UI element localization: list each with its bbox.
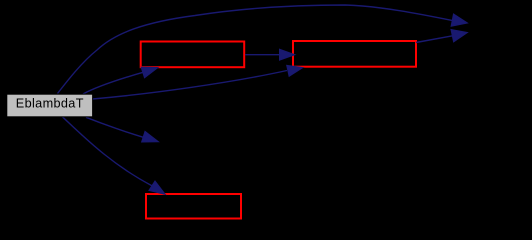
node box1 (red) [141, 42, 245, 68]
wire EblambdaT to box3 [62, 117, 151, 186]
node box2 (red) [293, 41, 416, 67]
node EblambdaT (grey) [7, 94, 93, 117]
arrowhead mid-air [142, 131, 159, 142]
wire EblambdaT to far-right node (top curve) [58, 5, 453, 94]
arrowhead top-right A1 [451, 14, 467, 26]
node box3 (red) [146, 194, 241, 219]
svg-text:EblambdaT: EblambdaT [16, 96, 84, 110]
wire box1 to box2 [245, 54, 280, 56]
wire EblambdaT to hidden node (mid-air) [86, 117, 143, 137]
arrowhead at box2 bottom-left [287, 65, 303, 76]
wire box2 to far-right node [416, 36, 453, 43]
arrowhead at box1 bottom-left [141, 67, 158, 78]
wire EblambdaT to box1 [83, 72, 143, 94]
arrowhead top-right A2 [451, 30, 468, 42]
wire EblambdaT to box2 [93, 71, 288, 100]
arrowhead at box3 top [149, 181, 165, 194]
arrowhead at box2 left [280, 49, 296, 60]
